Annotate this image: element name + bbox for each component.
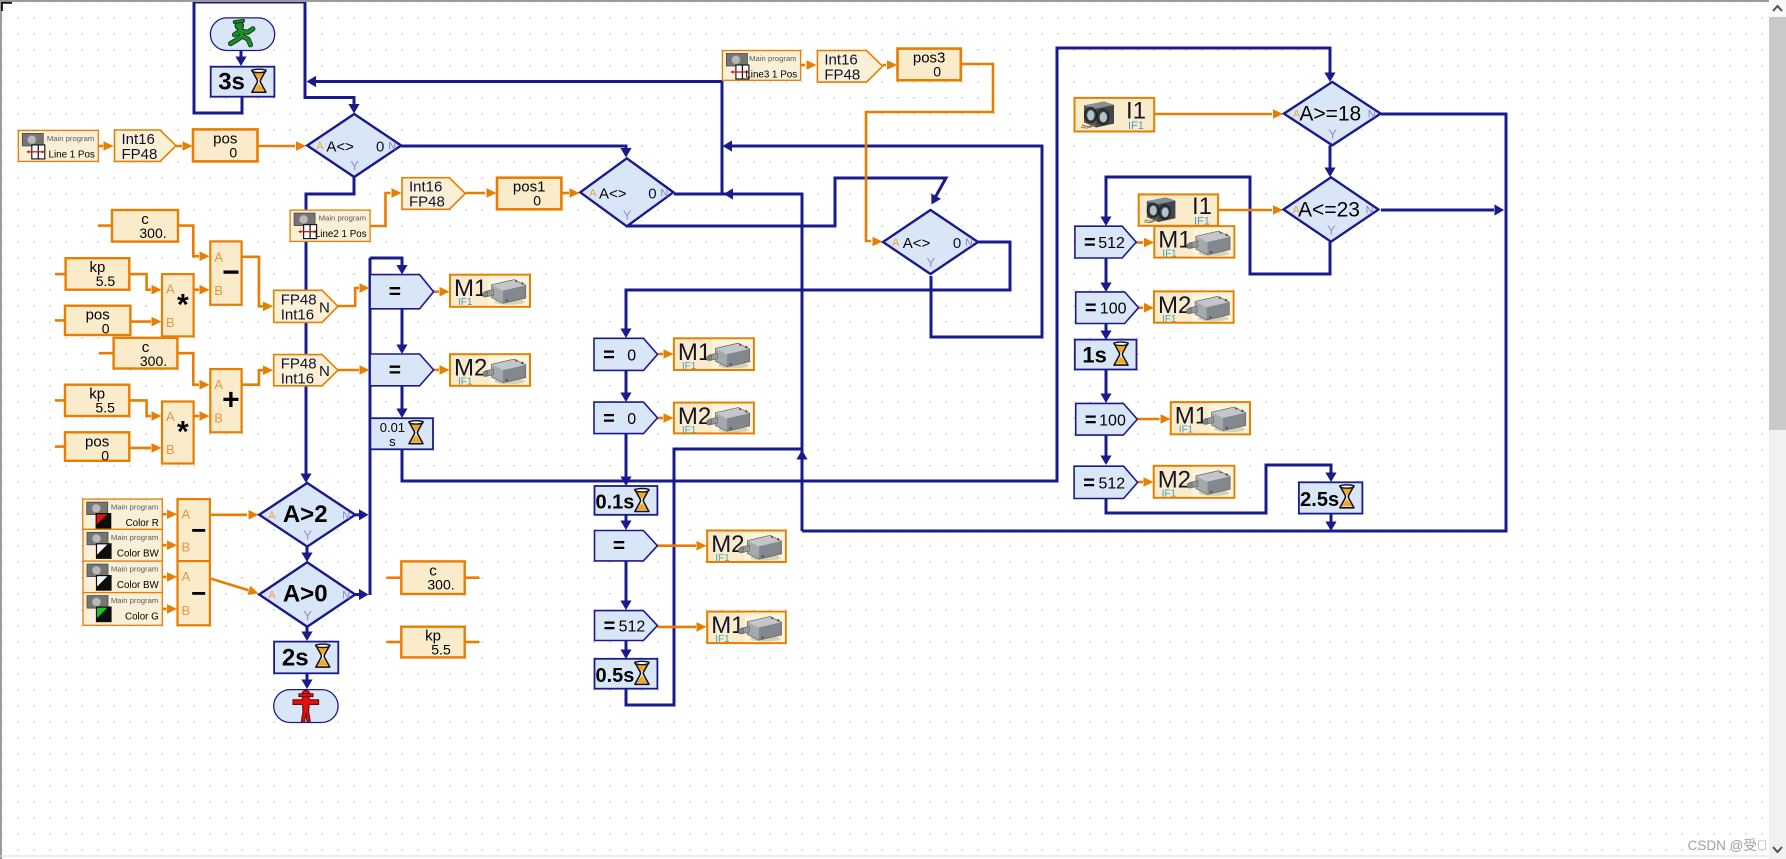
svg-text:0: 0 [376, 139, 384, 156]
svg-text:0: 0 [102, 321, 110, 337]
svg-text:N: N [1368, 109, 1376, 121]
svg-text:Color G: Color G [125, 612, 159, 623]
svg-text:A>0: A>0 [283, 581, 328, 608]
svg-text:Main program: Main program [111, 503, 158, 512]
svg-text:=: = [1084, 232, 1096, 254]
svg-text:+: + [222, 384, 240, 417]
svg-text:Y: Y [623, 207, 632, 222]
svg-text:N: N [342, 590, 350, 602]
svg-text:300.: 300. [140, 353, 167, 369]
svg-text:=: = [1083, 472, 1095, 494]
svg-text:=: = [1085, 409, 1097, 431]
svg-text:1s: 1s [1082, 343, 1106, 368]
svg-text:A: A [268, 590, 276, 602]
svg-text:FP48: FP48 [122, 146, 158, 163]
svg-text:B: B [166, 442, 175, 457]
svg-text:IF1: IF1 [715, 634, 730, 645]
svg-text:Color BW: Color BW [117, 548, 160, 559]
svg-text:FP48: FP48 [409, 194, 445, 211]
svg-text:Int16: Int16 [281, 306, 314, 323]
svg-text:Color R: Color R [126, 518, 159, 529]
svg-text:N: N [319, 299, 330, 316]
svg-text:A<>: A<> [599, 185, 627, 202]
svg-text:Y: Y [350, 158, 359, 173]
svg-text:Main program: Main program [749, 54, 796, 63]
svg-text:Main program: Main program [111, 565, 158, 574]
svg-text:2s: 2s [282, 644, 309, 671]
svg-text:0: 0 [229, 144, 237, 160]
svg-text:300.: 300. [139, 225, 166, 241]
svg-text:300.: 300. [427, 576, 454, 592]
svg-text:B: B [166, 315, 175, 330]
svg-text:A: A [182, 507, 191, 522]
svg-text:100: 100 [1100, 301, 1127, 318]
svg-text:Color BW: Color BW [117, 580, 160, 591]
svg-text:N: N [1366, 205, 1374, 217]
svg-text:=: = [603, 408, 615, 430]
svg-text:0.01: 0.01 [380, 420, 405, 435]
svg-text:IF1: IF1 [715, 553, 730, 564]
svg-text:Line3 1 Pos: Line3 1 Pos [745, 70, 797, 81]
svg-text:A<>: A<> [326, 139, 354, 156]
svg-text:N: N [342, 510, 350, 522]
svg-text:N: N [965, 237, 973, 249]
svg-text:=: = [389, 281, 401, 304]
svg-text:=: = [603, 344, 615, 366]
svg-text:Main program: Main program [47, 134, 94, 143]
svg-text:IF1: IF1 [1162, 314, 1177, 325]
svg-text:s: s [389, 434, 396, 449]
svg-text:*: * [177, 288, 189, 321]
svg-text:Y: Y [303, 528, 312, 543]
svg-text:512: 512 [1098, 235, 1125, 252]
svg-text:Y: Y [1327, 223, 1336, 238]
svg-text:A: A [166, 409, 175, 424]
svg-text:IF1: IF1 [458, 297, 473, 308]
svg-text:A<=23: A<=23 [1298, 199, 1360, 222]
svg-text:0.5s: 0.5s [595, 665, 634, 687]
svg-text:Line2 1 Pos: Line2 1 Pos [315, 229, 367, 240]
svg-text:N: N [388, 141, 396, 153]
svg-text:0: 0 [953, 235, 961, 252]
svg-text:Main program: Main program [111, 596, 158, 605]
svg-text:512: 512 [619, 619, 646, 636]
svg-text:−: − [222, 256, 240, 289]
svg-text:N: N [319, 363, 330, 380]
svg-text:IF1: IF1 [1128, 120, 1144, 132]
svg-text:Int16: Int16 [281, 371, 314, 388]
svg-text:5.5: 5.5 [95, 400, 115, 416]
svg-text:0: 0 [627, 347, 636, 364]
svg-text:Y: Y [303, 608, 312, 623]
svg-text:=: = [1085, 298, 1097, 320]
svg-text:=: = [613, 535, 625, 558]
svg-text:=: = [604, 616, 616, 638]
svg-text:5.5: 5.5 [431, 642, 451, 658]
svg-text:IF1: IF1 [1162, 249, 1177, 260]
svg-text:FP48: FP48 [824, 67, 860, 84]
svg-text:A>=18: A>=18 [1299, 103, 1361, 126]
svg-text:0: 0 [627, 411, 636, 428]
svg-text:A<>: A<> [903, 235, 931, 252]
svg-text:0: 0 [648, 185, 656, 202]
svg-text:Line 1 Pos: Line 1 Pos [49, 149, 95, 160]
svg-text:−: − [191, 515, 206, 545]
svg-text:5.5: 5.5 [96, 273, 116, 289]
svg-text:A: A [892, 237, 900, 249]
svg-text:A>2: A>2 [283, 501, 328, 528]
svg-text:0: 0 [533, 193, 541, 209]
svg-text:=: = [389, 359, 401, 382]
svg-text:*: * [177, 416, 189, 449]
svg-text:N: N [660, 187, 668, 199]
svg-text:IF1: IF1 [682, 361, 697, 372]
svg-text:B: B [182, 603, 191, 618]
svg-text:3s: 3s [218, 69, 245, 96]
svg-text:Main program: Main program [111, 533, 158, 542]
svg-text:A: A [166, 282, 175, 297]
svg-text:0.1s: 0.1s [595, 491, 634, 513]
svg-text:0: 0 [933, 64, 941, 80]
svg-text:Y: Y [1328, 126, 1337, 141]
svg-text:512: 512 [1098, 475, 1125, 492]
svg-text:A: A [316, 141, 324, 153]
svg-text:IF1: IF1 [1179, 425, 1194, 436]
svg-text:IF1: IF1 [458, 377, 473, 388]
svg-text:−: − [191, 578, 206, 608]
svg-text:IF1: IF1 [1162, 488, 1177, 499]
svg-text:A: A [589, 187, 597, 199]
svg-text:0: 0 [101, 447, 109, 463]
svg-text:Main program: Main program [319, 214, 366, 223]
svg-text:A: A [182, 569, 191, 584]
svg-text:B: B [182, 540, 191, 555]
svg-text:2.5s: 2.5s [1300, 489, 1339, 511]
svg-text:100: 100 [1099, 412, 1126, 429]
svg-text:Y: Y [927, 255, 936, 270]
svg-text:A: A [268, 510, 276, 522]
svg-text:IF1: IF1 [682, 425, 697, 436]
